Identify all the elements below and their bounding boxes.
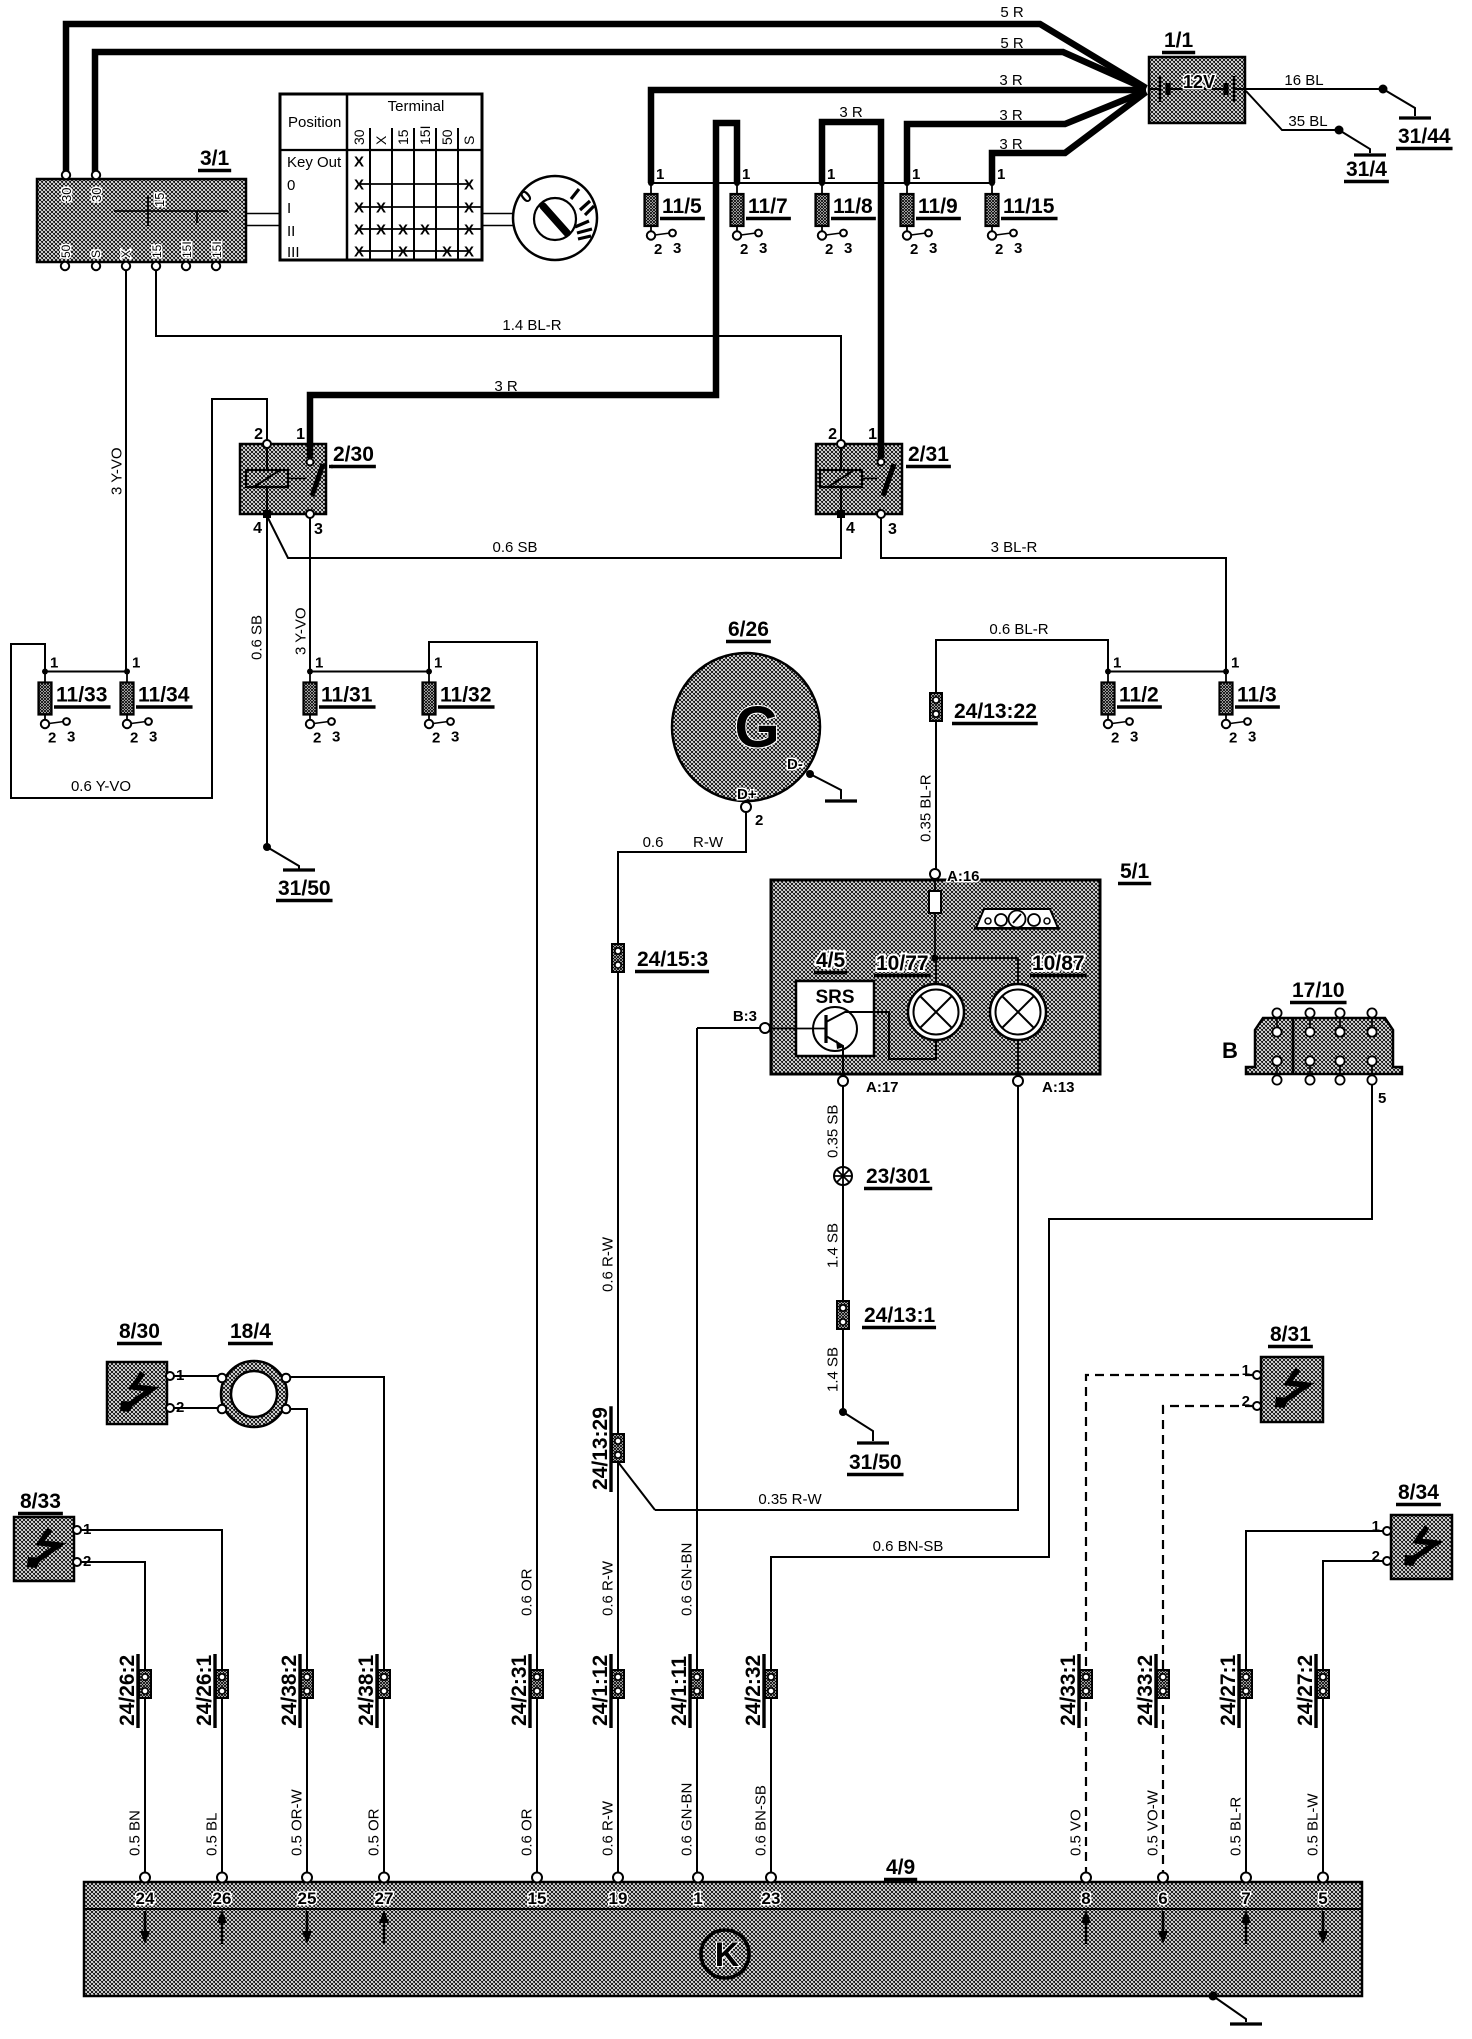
svg-text:2: 2 — [828, 426, 837, 443]
svg-text:1: 1 — [1231, 655, 1239, 672]
svg-text:1: 1 — [315, 655, 323, 672]
svg-text:8/30: 8/30 — [119, 1320, 160, 1343]
svg-text:0.6 BN-SB: 0.6 BN-SB — [873, 1538, 944, 1555]
svg-text:15: 15 — [395, 129, 411, 145]
svg-text:0.6 BN-SB: 0.6 BN-SB — [753, 1785, 770, 1856]
svg-text:31/50: 31/50 — [278, 877, 331, 900]
svg-text:0.5 VO: 0.5 VO — [1068, 1809, 1085, 1856]
svg-text:1.4 SB: 1.4 SB — [825, 1347, 842, 1392]
svg-text:3 R: 3 R — [839, 104, 863, 121]
svg-text:3: 3 — [888, 521, 897, 538]
svg-text:1.4 BL-R: 1.4 BL-R — [502, 317, 561, 334]
svg-text:11/2: 11/2 — [1119, 684, 1159, 707]
svg-text:24/15:3: 24/15:3 — [637, 948, 708, 971]
svg-text:0.35 R-W: 0.35 R-W — [758, 1491, 822, 1508]
svg-text:24/13:22: 24/13:22 — [954, 700, 1037, 723]
svg-text:X: X — [464, 222, 474, 239]
svg-text:1: 1 — [1242, 1362, 1250, 1379]
svg-text:0.6 R-W: 0.6 R-W — [600, 1236, 617, 1292]
svg-text:2: 2 — [1242, 1393, 1250, 1410]
svg-text:B: B — [1222, 1038, 1238, 1063]
svg-text:3: 3 — [149, 729, 157, 746]
svg-text:3: 3 — [844, 240, 852, 257]
svg-text:12V: 12V — [1183, 72, 1215, 92]
svg-text:31/50: 31/50 — [849, 1451, 902, 1474]
svg-text:5: 5 — [1378, 1090, 1386, 1107]
svg-text:10/87: 10/87 — [1032, 952, 1085, 975]
svg-text:15: 15 — [152, 193, 167, 207]
svg-text:X: X — [420, 222, 430, 239]
svg-text:5: 5 — [1318, 1889, 1327, 1908]
svg-text:24/1:12: 24/1:12 — [589, 1655, 612, 1726]
svg-text:24/13:1: 24/13:1 — [864, 1304, 936, 1327]
svg-text:2: 2 — [740, 241, 748, 258]
svg-text:S: S — [461, 136, 477, 145]
svg-text:24: 24 — [136, 1889, 155, 1908]
svg-text:SRS: SRS — [815, 987, 854, 1008]
svg-text:2/31: 2/31 — [908, 443, 949, 466]
svg-text:D+: D+ — [737, 786, 757, 803]
svg-text:Position: Position — [288, 114, 341, 131]
svg-text:18/4: 18/4 — [230, 1320, 271, 1343]
svg-text:1: 1 — [1372, 1518, 1380, 1535]
svg-text:0.5 BL-R: 0.5 BL-R — [1228, 1797, 1245, 1856]
svg-text:3: 3 — [314, 521, 323, 538]
svg-text:0.6 R-W: 0.6 R-W — [600, 1800, 617, 1856]
svg-text:1/1: 1/1 — [1164, 29, 1194, 52]
svg-text:11/7: 11/7 — [748, 195, 788, 218]
svg-text:0.6 SB: 0.6 SB — [249, 615, 266, 660]
svg-text:Key Out: Key Out — [287, 154, 342, 171]
svg-text:7: 7 — [1241, 1889, 1250, 1908]
svg-text:X: X — [354, 200, 364, 217]
svg-text:X: X — [442, 244, 452, 261]
svg-text:1: 1 — [912, 166, 920, 183]
svg-text:0.6 BL-R: 0.6 BL-R — [989, 621, 1048, 638]
svg-text:2: 2 — [432, 730, 440, 747]
svg-text:1: 1 — [83, 1521, 91, 1538]
svg-text:30: 30 — [89, 188, 104, 202]
svg-text:11/8: 11/8 — [833, 195, 873, 218]
svg-text:2: 2 — [313, 730, 321, 747]
svg-text:30: 30 — [351, 129, 367, 145]
svg-text:1: 1 — [296, 426, 305, 443]
svg-text:1: 1 — [132, 655, 140, 672]
svg-text:3 BL-R: 3 BL-R — [991, 539, 1038, 556]
svg-text:0.6 GN-BN: 0.6 GN-BN — [679, 1543, 696, 1616]
svg-text:0.6 OR: 0.6 OR — [519, 1568, 536, 1616]
svg-text:24/2:31: 24/2:31 — [508, 1654, 531, 1726]
svg-text:2: 2 — [1372, 1548, 1380, 1565]
svg-text:0.6 Y-VO: 0.6 Y-VO — [71, 778, 131, 795]
svg-text:11/33: 11/33 — [56, 684, 107, 707]
svg-text:8/33: 8/33 — [20, 1490, 61, 1513]
svg-text:G: G — [734, 695, 779, 760]
svg-text:11/15: 11/15 — [1003, 195, 1055, 218]
svg-text:24/27:1: 24/27:1 — [1217, 1654, 1240, 1726]
svg-text:0: 0 — [287, 177, 295, 194]
svg-text:24/38:2: 24/38:2 — [278, 1655, 301, 1726]
svg-text:15: 15 — [150, 244, 164, 258]
svg-text:1: 1 — [176, 1367, 184, 1384]
svg-text:8/34: 8/34 — [1398, 1481, 1439, 1504]
svg-text:24/26:2: 24/26:2 — [116, 1655, 139, 1726]
svg-text:2: 2 — [755, 812, 763, 829]
svg-text:0.6 R-W: 0.6 R-W — [600, 1560, 617, 1616]
svg-text:24/13:29: 24/13:29 — [589, 1407, 612, 1490]
svg-text:3: 3 — [332, 729, 340, 746]
svg-text:X: X — [464, 244, 474, 261]
svg-text:2/30: 2/30 — [333, 443, 374, 466]
svg-text:11/3: 11/3 — [1237, 684, 1277, 707]
svg-text:8: 8 — [1081, 1889, 1090, 1908]
svg-text:0.6 OR: 0.6 OR — [519, 1808, 536, 1856]
svg-text:X: X — [376, 222, 386, 239]
svg-text:2: 2 — [910, 241, 918, 258]
svg-text:23/301: 23/301 — [866, 1165, 931, 1188]
svg-text:0.5 OR-W: 0.5 OR-W — [289, 1788, 306, 1856]
svg-text:1: 1 — [868, 426, 877, 443]
svg-text:0.35 SB: 0.35 SB — [825, 1105, 842, 1158]
svg-text:X: X — [398, 222, 408, 239]
svg-text:X: X — [354, 154, 364, 171]
svg-text:R-W: R-W — [693, 834, 724, 851]
svg-text:A:17: A:17 — [866, 1079, 899, 1096]
svg-text:0.5 BL-W: 0.5 BL-W — [1305, 1793, 1322, 1856]
svg-text:2: 2 — [995, 241, 1003, 258]
svg-text:A:13: A:13 — [1042, 1079, 1075, 1096]
svg-text:11/32: 11/32 — [440, 684, 491, 707]
svg-text:1.4 SB: 1.4 SB — [825, 1223, 842, 1268]
svg-text:S: S — [89, 250, 103, 258]
svg-text:X: X — [373, 135, 389, 145]
svg-text:5 R: 5 R — [1000, 4, 1024, 21]
svg-text:1: 1 — [434, 655, 442, 672]
svg-text:X: X — [464, 200, 474, 217]
svg-text:15I: 15I — [417, 126, 433, 145]
svg-text:15: 15 — [528, 1889, 547, 1908]
svg-text:4/9: 4/9 — [886, 1856, 915, 1879]
svg-text:0.6 GN-BN: 0.6 GN-BN — [679, 1783, 696, 1856]
svg-text:6/26: 6/26 — [728, 618, 769, 641]
svg-text:50: 50 — [59, 244, 73, 258]
svg-text:4: 4 — [846, 520, 855, 537]
svg-text:4/5: 4/5 — [816, 949, 846, 972]
svg-text:25: 25 — [298, 1889, 317, 1908]
svg-text:3: 3 — [673, 240, 681, 257]
svg-text:X: X — [376, 200, 386, 217]
svg-text:X: X — [119, 250, 133, 258]
svg-text:0.5 OR: 0.5 OR — [366, 1808, 383, 1856]
svg-text:4: 4 — [253, 520, 262, 537]
svg-text:2: 2 — [176, 1399, 184, 1416]
svg-text:24/33:1: 24/33:1 — [1057, 1654, 1080, 1726]
svg-text:1: 1 — [742, 166, 750, 183]
svg-text:0.35 BL-R: 0.35 BL-R — [918, 774, 935, 842]
svg-text:3 R: 3 R — [999, 72, 1023, 89]
svg-text:0.6: 0.6 — [643, 834, 664, 851]
svg-text:27: 27 — [375, 1889, 394, 1908]
svg-text:Terminal: Terminal — [388, 98, 445, 115]
svg-text:1: 1 — [827, 166, 835, 183]
svg-text:8/31: 8/31 — [1270, 1323, 1311, 1346]
svg-text:2: 2 — [1229, 730, 1237, 747]
svg-text:1: 1 — [1113, 655, 1121, 672]
svg-text:3: 3 — [451, 729, 459, 746]
svg-text:X: X — [354, 177, 364, 194]
svg-text:3: 3 — [1248, 729, 1256, 746]
svg-text:2: 2 — [83, 1553, 91, 1570]
svg-text:2: 2 — [48, 730, 56, 747]
svg-text:11/31: 11/31 — [321, 684, 373, 707]
svg-text:35 BL: 35 BL — [1288, 113, 1327, 130]
svg-text:I: I — [287, 200, 291, 217]
svg-text:11/34: 11/34 — [138, 684, 190, 707]
svg-text:11/9: 11/9 — [918, 195, 958, 218]
svg-text:D-: D- — [787, 756, 803, 773]
svg-text:17/10: 17/10 — [1292, 979, 1345, 1002]
svg-text:16 BL: 16 BL — [1284, 72, 1323, 89]
svg-text:0.6 SB: 0.6 SB — [492, 539, 537, 556]
svg-text:3 Y-VO: 3 Y-VO — [109, 447, 126, 495]
svg-text:3 R: 3 R — [999, 136, 1023, 153]
svg-text:3: 3 — [1130, 729, 1138, 746]
svg-text:0.5 BN: 0.5 BN — [127, 1810, 144, 1856]
svg-text:23: 23 — [762, 1889, 781, 1908]
svg-text:31/44: 31/44 — [1398, 125, 1451, 148]
svg-text:3: 3 — [1014, 240, 1022, 257]
svg-text:K: K — [715, 1936, 740, 1974]
svg-text:2: 2 — [654, 241, 662, 258]
svg-text:X: X — [464, 177, 474, 194]
svg-text:0.5 BL: 0.5 BL — [204, 1813, 221, 1856]
svg-text:II: II — [287, 223, 295, 240]
svg-text:15I: 15I — [180, 241, 194, 258]
svg-text:3 Y-VO: 3 Y-VO — [293, 607, 310, 655]
svg-text:2: 2 — [254, 426, 263, 443]
svg-text:X: X — [354, 222, 364, 239]
svg-text:X: X — [398, 244, 408, 261]
svg-text:5 R: 5 R — [1000, 35, 1024, 52]
svg-text:31/4: 31/4 — [1346, 158, 1387, 181]
svg-text:1: 1 — [656, 166, 664, 183]
svg-text:19: 19 — [609, 1889, 628, 1908]
svg-text:5/1: 5/1 — [1120, 860, 1150, 883]
svg-text:1: 1 — [693, 1889, 702, 1908]
svg-text:2: 2 — [130, 730, 138, 747]
svg-text:III: III — [287, 244, 300, 261]
svg-text:24/1:11: 24/1:11 — [668, 1656, 691, 1726]
svg-text:15I: 15I — [210, 241, 224, 258]
svg-text:3: 3 — [67, 729, 75, 746]
svg-text:6: 6 — [1158, 1889, 1167, 1908]
svg-text:24/27:2: 24/27:2 — [1294, 1655, 1317, 1726]
svg-text:B:3: B:3 — [733, 1008, 757, 1025]
svg-text:1: 1 — [50, 655, 58, 672]
svg-text:26: 26 — [213, 1889, 232, 1908]
svg-text:3: 3 — [929, 240, 937, 257]
svg-text:3 R: 3 R — [494, 378, 518, 395]
svg-text:3 R: 3 R — [999, 107, 1023, 124]
svg-text:X: X — [354, 244, 364, 261]
svg-text:2: 2 — [1111, 730, 1119, 747]
svg-text:24/2:32: 24/2:32 — [742, 1655, 765, 1726]
svg-text:24/26:1: 24/26:1 — [193, 1654, 216, 1726]
svg-text:2: 2 — [825, 241, 833, 258]
svg-text:24/38:1: 24/38:1 — [355, 1654, 378, 1726]
svg-text:24/33:2: 24/33:2 — [1134, 1655, 1157, 1726]
svg-text:1: 1 — [997, 166, 1005, 183]
svg-text:A:16: A:16 — [947, 868, 980, 885]
svg-text:10/77: 10/77 — [876, 952, 929, 975]
svg-text:50: 50 — [439, 129, 455, 145]
svg-text:30: 30 — [59, 188, 74, 202]
svg-text:3: 3 — [759, 240, 767, 257]
svg-text:11/5: 11/5 — [662, 195, 702, 218]
svg-text:3/1: 3/1 — [200, 147, 230, 170]
svg-text:0.5 VO-W: 0.5 VO-W — [1145, 1789, 1162, 1856]
